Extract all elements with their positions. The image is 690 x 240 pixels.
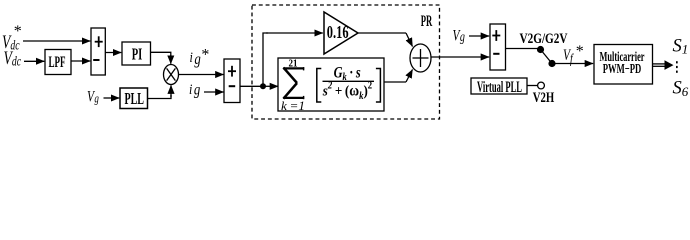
svg-text:PWM−PD: PWM−PD: [603, 61, 642, 76]
svg-text:PI: PI: [132, 44, 143, 63]
svg-text:Gk · s: Gk · s: [334, 64, 362, 83]
svg-text:k =1: k =1: [281, 98, 305, 113]
svg-text:V2G/G2V: V2G/G2V: [520, 31, 568, 47]
svg-text:*: *: [201, 46, 209, 63]
svg-text:V2H: V2H: [533, 90, 555, 106]
svg-text:Vg: Vg: [87, 89, 99, 106]
svg-text:PLL: PLL: [124, 89, 144, 108]
svg-text:ig: ig: [189, 81, 200, 99]
svg-text:PR: PR: [421, 13, 433, 30]
svg-text:*: *: [576, 43, 584, 60]
svg-text:LPF: LPF: [49, 54, 66, 71]
svg-text:*: *: [14, 23, 22, 40]
svg-text:Vg: Vg: [453, 28, 465, 45]
svg-text:0.16: 0.16: [327, 22, 349, 42]
svg-text:Virtual PLL: Virtual PLL: [477, 79, 522, 96]
